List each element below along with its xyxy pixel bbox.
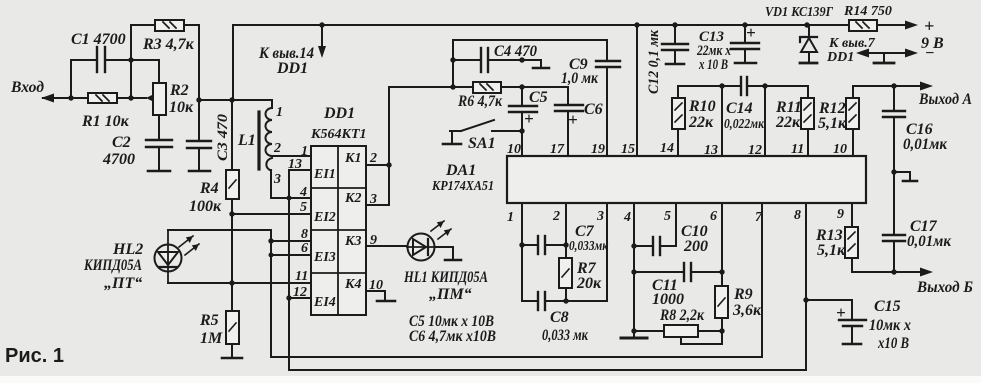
svg-text:R8 2,2к: R8 2,2к: [659, 307, 705, 324]
svg-text:3: 3: [273, 172, 281, 187]
resistor R12: [846, 86, 894, 156]
svg-text:+: +: [568, 110, 578, 129]
node junction tap3 net: [287, 196, 292, 201]
wire C4 ground stub: [522, 60, 541, 67]
svg-text:+: +: [924, 16, 934, 36]
switch SA1: [443, 120, 522, 144]
wire R4 bottom: [231, 199, 233, 311]
capacitor C12: [662, 25, 688, 64]
node junction C7 right: [563, 242, 568, 247]
wire C1 right leg to R2 top: [105, 60, 159, 83]
svg-text:5: 5: [300, 200, 307, 215]
LED HL1: [407, 221, 451, 261]
svg-text:R6 4,7к: R6 4,7к: [457, 93, 503, 110]
ground C4 bar: [533, 67, 549, 70]
node junction HL2/R5: [229, 280, 234, 285]
node junction rail C13: [742, 22, 747, 27]
node output A junction: [891, 83, 896, 88]
svg-text:2: 2: [552, 209, 560, 224]
wire R5 bottom: [231, 344, 233, 357]
svg-text:С15: С15: [874, 298, 901, 315]
svg-text:Выход А: Выход А: [918, 91, 972, 108]
svg-text:Выход Б: Выход Б: [916, 279, 973, 296]
svg-text:К2: К2: [344, 191, 362, 206]
wire output B arrow: [894, 268, 933, 277]
svg-text:КР174ХА51: КР174ХА51: [431, 179, 494, 194]
svg-text:15: 15: [621, 142, 635, 157]
ground R5 end bar: [222, 357, 242, 360]
wire output B: [852, 258, 894, 272]
svg-text:3,6к: 3,6к: [732, 302, 762, 319]
wire C3 bottom: [198, 148, 200, 170]
ground HL1 bar: [445, 259, 461, 262]
wire R2 bottom to C2: [158, 115, 160, 140]
svg-text:1: 1: [276, 105, 283, 120]
node input arrow: [41, 94, 54, 103]
svg-text:Вход: Вход: [10, 79, 44, 96]
wire top rail corner down: [232, 25, 234, 100]
svg-text:ЕІ1: ЕІ1: [313, 167, 336, 182]
svg-text:R3 4,7к: R3 4,7к: [142, 36, 195, 53]
svg-text:0,033 мк: 0,033 мк: [542, 327, 589, 344]
node junction R1/R3: [128, 95, 133, 100]
wire C1 left leg: [71, 60, 96, 98]
node junction rail VD1: [804, 22, 809, 27]
wire output A arrow: [894, 82, 933, 91]
svg-text:1,0 мк: 1,0 мк: [561, 70, 599, 87]
svg-text:3: 3: [369, 192, 377, 207]
svg-text:7: 7: [755, 210, 763, 225]
capacitor C3: [187, 141, 211, 148]
svg-text:С1 4700: С1 4700: [71, 31, 126, 48]
wire DA1 pin7 to control rail: [271, 203, 762, 357]
capacitor C1: [97, 47, 105, 72]
wire C9 top link: [453, 39, 607, 41]
node junction C11 right: [719, 269, 724, 274]
svg-text:+: +: [746, 23, 756, 42]
capacitor C9: [596, 40, 620, 67]
node output B junction: [891, 269, 896, 274]
node junction pin8: [268, 238, 273, 243]
svg-text:4: 4: [623, 210, 631, 225]
ground K4 bar: [377, 300, 395, 303]
wire DD1 K4 out pin10: [366, 291, 385, 300]
svg-text:14: 14: [660, 141, 674, 156]
svg-text:С3 470: С3 470: [215, 113, 231, 161]
svg-text:12: 12: [748, 143, 762, 158]
node junction pin12 top: [762, 83, 767, 88]
wire DD1 K2 out pin3: [366, 87, 453, 205]
svg-text:R1 10к: R1 10к: [81, 113, 130, 130]
svg-text:3: 3: [596, 209, 604, 224]
wire DD1 K3 out pin9: [366, 245, 407, 247]
svg-text:4700: 4700: [102, 151, 135, 168]
wire pin15 feed: [636, 25, 638, 156]
capacitor C7: [522, 236, 566, 254]
capacitor C13: [731, 25, 759, 63]
resistor R11: [801, 86, 814, 156]
wire R3 left horiz: [131, 24, 155, 26]
wire HL2 top to DD1 pins 8,6: [168, 230, 271, 357]
IC DD1 box: [311, 146, 366, 315]
capacitor C17: [883, 172, 905, 272]
svg-text:200: 200: [683, 238, 708, 255]
wire R4 feed: [231, 100, 233, 170]
svg-text:12: 12: [293, 285, 307, 300]
wire HL2 bottom / DD1 pin11: [168, 282, 311, 284]
capacitor C14: [741, 77, 808, 95]
capacitor C6: [555, 105, 583, 111]
svg-text:5,1к: 5,1к: [818, 115, 847, 132]
svg-text:6: 6: [301, 241, 308, 256]
node junction C8 right: [563, 298, 568, 303]
node junction rail pin15: [634, 22, 639, 27]
svg-text:SA1: SA1: [468, 135, 496, 152]
resistor R4: [226, 170, 239, 199]
potentiometer R2: [146, 83, 166, 115]
wire C5 bottom to pin10: [521, 112, 523, 156]
svg-text:+: +: [836, 303, 846, 322]
svg-text:ЕІ3: ЕІ3: [313, 250, 336, 265]
wire pin13 vertical: [721, 86, 723, 156]
ground chassis bar at DD1 pin7 link: [874, 53, 894, 63]
svg-text:−: −: [925, 45, 935, 62]
wire R9 bottom: [721, 318, 723, 344]
svg-text:2: 2: [369, 151, 377, 166]
capacitor C8: [522, 292, 566, 310]
wire L1 tap2 to DD1 pin1: [272, 155, 311, 157]
resistor R8 trimmer: [634, 325, 722, 344]
svg-text:К выв.7: К выв.7: [828, 36, 876, 51]
svg-text:1М: 1М: [200, 330, 223, 347]
node junction R8 right: [719, 328, 724, 333]
node junction rail C12: [672, 22, 677, 27]
wire C2 bottom: [158, 147, 160, 170]
wire C6 bottom to pin17: [567, 111, 569, 156]
svg-text:4: 4: [299, 185, 307, 200]
svg-text:10: 10: [833, 142, 847, 157]
svg-text:5,1к: 5,1к: [817, 242, 846, 259]
wire HL1 right to ground: [435, 247, 453, 259]
wire to L1 top: [232, 100, 272, 108]
wire DD1 pin5: [232, 213, 311, 215]
svg-text:6: 6: [710, 209, 717, 224]
wire to DD1 pin7 double arrow: [856, 49, 918, 58]
svg-text:10: 10: [507, 142, 521, 157]
wire input line: [43, 97, 146, 99]
svg-text:L1: L1: [237, 132, 256, 149]
node junction R3-C3 top: [196, 97, 201, 102]
svg-text:С14: С14: [726, 100, 753, 117]
wire R3 left vertical: [130, 25, 132, 98]
svg-text:1000: 1000: [652, 291, 684, 308]
svg-text:0,033мк: 0,033мк: [569, 239, 609, 254]
svg-text:10к: 10к: [169, 99, 194, 116]
resistor R14: [849, 20, 877, 31]
ground C3 end bar: [189, 170, 210, 173]
node junction pin6: [269, 253, 274, 258]
node junction R6 right / C5 top: [519, 84, 524, 89]
wire supply out / arrow 9V plus: [877, 21, 918, 30]
wire DA1 pin8 to bottom rail: [289, 203, 806, 370]
svg-text:17: 17: [550, 142, 565, 157]
node junction C10 left: [631, 243, 636, 248]
svg-text:R5: R5: [199, 312, 219, 329]
zener diode VD1: [800, 25, 817, 63]
svg-text:DD1: DD1: [323, 105, 355, 122]
svg-text:13: 13: [288, 157, 302, 172]
svg-text:0,022мк: 0,022мк: [724, 117, 765, 132]
capacitor C16: [883, 86, 905, 172]
wire C4 right leg: [488, 59, 522, 61]
svg-text:5: 5: [664, 209, 671, 224]
wire pin12 vertical: [764, 86, 766, 156]
wire C6 top link: [522, 87, 568, 105]
svg-text:100к: 100к: [189, 198, 222, 215]
resistor R9: [715, 286, 728, 318]
svg-text:R10: R10: [688, 98, 716, 115]
svg-text:10: 10: [369, 278, 383, 293]
svg-text:13: 13: [704, 143, 718, 158]
wire DD1 pin8: [271, 240, 311, 242]
svg-text:22к: 22к: [688, 114, 714, 131]
svg-text:К4: К4: [344, 277, 362, 292]
svg-text:К564КТ1: К564КТ1: [310, 127, 367, 142]
svg-text:х10 В: х10 В: [877, 335, 909, 352]
node junction C7 left: [519, 242, 524, 247]
LED HL2: [155, 230, 200, 283]
svg-text:Рис. 1: Рис. 1: [5, 345, 64, 367]
wire C4 left leg: [453, 59, 480, 61]
node junction C4 right: [519, 57, 524, 62]
svg-text:22к: 22к: [775, 114, 801, 131]
wire DA1 pin2 vertical: [565, 203, 567, 258]
svg-text:HL1 КИПД05А: HL1 КИПД05А: [403, 269, 488, 286]
svg-text:8: 8: [794, 208, 801, 223]
svg-text:+: +: [524, 109, 534, 128]
svg-text:9: 9: [837, 207, 844, 222]
resistor R7: [559, 258, 572, 288]
node junction R8 left: [631, 328, 636, 333]
resistor R6: [453, 82, 522, 93]
svg-text:2: 2: [273, 141, 281, 156]
node A junction input/C1: [68, 95, 73, 100]
wire top supply rail: [233, 24, 849, 26]
svg-text:VD1 КС139Г: VD1 КС139Г: [765, 5, 833, 20]
svg-text:DD1: DD1: [276, 60, 308, 77]
capacitor C2: [146, 140, 172, 147]
svg-text:С4 470: С4 470: [494, 43, 537, 60]
node junction rail/L1/R4: [229, 97, 234, 102]
svg-text:С7: С7: [575, 223, 595, 240]
resistor R1: [88, 93, 117, 103]
capacitor C5: [509, 106, 537, 112]
wire R7 bottom: [565, 288, 567, 301]
svg-text:„ПТ“: „ПТ“: [104, 275, 142, 292]
svg-text:20к: 20к: [576, 275, 602, 292]
node junction pin13 top: [719, 83, 724, 88]
wire DD1 K1 out pin2: [366, 164, 389, 166]
svg-text:КИПД05А: КИПД05А: [83, 257, 142, 274]
wire DA1 pin6 vertical: [721, 203, 723, 286]
capacitor C4: [481, 48, 488, 72]
wire R10 top feed / pin14: [678, 86, 741, 156]
svg-text:С5: С5: [529, 89, 548, 106]
ground C2 end bar: [148, 170, 170, 173]
svg-text:R9: R9: [733, 286, 753, 303]
svg-text:9: 9: [370, 233, 377, 248]
svg-text:С2: С2: [112, 134, 131, 151]
IC DA1 box: [507, 156, 866, 203]
svg-text:„ПМ“: „ПМ“: [429, 286, 472, 303]
capacitor C15: [806, 300, 866, 344]
wire pin13 net down to rail2: [288, 198, 290, 370]
svg-text:DA1: DA1: [445, 162, 476, 179]
node junction R6 left: [450, 84, 455, 89]
wire DA1 pin5 vertical: [675, 203, 677, 246]
svg-text:С8: С8: [550, 309, 569, 326]
wire C9 bottom to pin19: [606, 67, 608, 156]
resistor R5: [226, 311, 239, 344]
node junction C4 left: [450, 57, 455, 62]
svg-text:19: 19: [591, 142, 605, 157]
svg-text:К1: К1: [344, 151, 362, 166]
wire DA1 pin1 vertical: [521, 203, 523, 301]
resistor R10: [672, 98, 685, 129]
svg-text:DD1: DD1: [826, 50, 854, 65]
svg-text:0,01мк: 0,01мк: [903, 136, 948, 153]
node junction C15: [803, 297, 808, 302]
svg-text:1: 1: [301, 144, 308, 159]
svg-text:HL2: HL2: [112, 241, 143, 258]
wire C3 node to L1 node: [199, 99, 232, 101]
svg-text:х 10 В: х 10 В: [698, 57, 728, 73]
capacitor C11: [634, 263, 722, 281]
wire DA1 pin9 to R13: [851, 203, 853, 227]
wire L1 tap3 to DD1 pin4: [271, 170, 311, 198]
svg-text:1: 1: [507, 210, 514, 225]
wire C5 top leg: [521, 87, 523, 106]
wire DA1 pin4 ground line: [633, 203, 635, 337]
node junction C16/C17 common: [891, 169, 896, 174]
wire C4/R6 left vertical: [452, 40, 454, 87]
ground DA1 pin4 bar: [621, 337, 647, 340]
svg-text:ЕІ2: ЕІ2: [313, 210, 336, 225]
capacitor C10: [634, 237, 676, 255]
svg-text:0,01мк: 0,01мк: [907, 233, 952, 250]
ground stub at C16: [894, 172, 917, 181]
svg-text:11: 11: [791, 142, 804, 157]
svg-text:10мк х: 10мк х: [869, 317, 911, 334]
node junction R4/pin5: [229, 211, 234, 216]
svg-text:R2: R2: [169, 82, 189, 99]
svg-text:С12 0,1 мк: С12 0,1 мк: [646, 30, 662, 94]
wire DD1 pin6: [271, 254, 311, 256]
svg-text:ЕІ4: ЕІ4: [313, 295, 336, 310]
node junction pin12: [286, 295, 291, 300]
svg-text:С6: С6: [584, 101, 603, 118]
node junction C1/R3 vertical: [128, 57, 133, 62]
svg-text:R4: R4: [199, 180, 219, 197]
node junction SA1: [519, 128, 524, 133]
svg-text:8: 8: [301, 227, 308, 242]
wire DA1 pin3 loop: [566, 203, 607, 301]
svg-text:С6 4,7мк х10В: С6 4,7мк х10В: [409, 328, 496, 345]
wire DD1 pin13 loop: [289, 170, 311, 198]
svg-text:К3: К3: [344, 234, 362, 249]
node arrow to DD1 pin14: [318, 22, 326, 58]
node junction C11 left: [631, 269, 636, 274]
resistor R13: [845, 227, 858, 258]
svg-text:R14 750: R14 750: [843, 4, 892, 19]
resistor R3: [155, 20, 184, 31]
wire DD1 pin12: [289, 297, 311, 299]
wire R3 right to C3 node: [184, 25, 199, 141]
inductor L1: [259, 108, 272, 171]
svg-text:11: 11: [295, 269, 308, 284]
node junction K1/K2 out: [386, 162, 391, 167]
